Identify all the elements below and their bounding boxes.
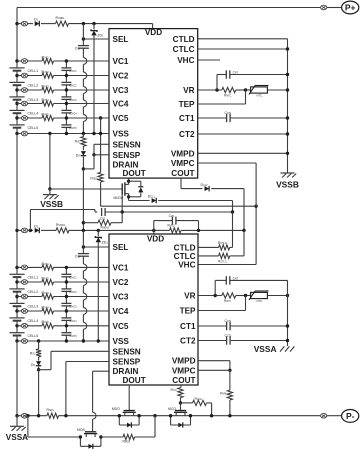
node supply-cap junction [82,22,85,25]
wire DOUT to gate (lower) [128,385,130,411]
svg-text:SENSN: SENSN [113,140,141,149]
resistor RMOS [123,434,135,439]
wire supply to SEL [82,24,84,39]
svg-text:RVC3: RVC3 [42,291,50,295]
wire subrow right [101,436,123,438]
battery CELL2 (lower stack) [9,288,24,290]
wire cap to VSS with hops (top) [82,48,84,57]
wire DOUT output row (top) [129,200,150,202]
svg-text:RCTLD: RCTLD [218,241,227,245]
wire SENSN link (lower) [39,369,51,371]
node RC filter right [197,229,200,232]
svg-text:RCO: RCO [171,388,177,392]
node battery tap [15,132,18,135]
thermistor NTC (lower) [251,292,268,298]
resistor RVDD1 [56,21,69,26]
wire VDD pin tick (top IC) [152,24,154,29]
svg-text:RVC4: RVC4 [42,98,50,102]
wire left rail mid segment [16,134,18,268]
wire VDD supply row (top) [17,23,33,25]
connector pad cell tap [21,116,27,121]
node lower supply junction [15,229,18,232]
connector pad cell tap [21,73,27,78]
capacitor CSEL (lower) [82,247,84,254]
battery CELL1 (upper stack) [9,67,24,69]
resistor RCTLC [219,253,230,258]
svg-text:VSS: VSS [113,130,130,139]
svg-text:RNTC: RNTC [224,299,231,303]
svg-text:VC3: VC3 [113,293,129,302]
resistor RSL1 (top, VSS to sense) [82,134,84,137]
battery CELL4 (upper stack) [9,109,24,111]
wire cell tap row 4 (top) [17,103,42,105]
wire to P- [327,415,342,417]
node supply-zener junction [92,22,95,25]
ground VSSB (right rail) [281,172,295,174]
node zener at VSS lower [97,339,100,342]
svg-text:VC1: VC1 [113,263,129,272]
svg-text:CELL3: CELL3 [28,305,39,309]
wire CTLD row (top) [198,38,288,40]
resistor RVDD3 (RC parallel) [170,228,182,233]
thermistor NTC (top) [251,87,268,93]
connector pad cell tap lower [21,265,27,270]
wire gate node to gate [180,403,182,411]
transistor MUDO (top DOUT FET) [128,178,130,184]
wire VSSB drop from VSS row [48,132,51,135]
wire cell tap row 5 (top) [17,117,42,119]
svg-text:RVDD1: RVDD1 [56,223,66,227]
svg-text:DS: DS [31,363,35,367]
wire SENSP (top) [94,154,109,156]
capacitor CVC2 (lower) [65,282,67,289]
svg-text:RSEN: RSEN [90,177,98,181]
node battery tap [15,74,18,77]
svg-text:VC4: VC4 [113,100,129,109]
connector pad cell tap lower [21,294,27,299]
node between FETs [153,414,156,417]
svg-text:DRAIN: DRAIN [113,367,139,376]
svg-text:VHC: VHC [178,261,195,270]
svg-text:VHC: VHC [177,56,194,65]
svg-text:RCTLC: RCTLC [218,260,227,264]
node SENSP bottom [64,414,67,417]
ground VSSB (left) [49,189,51,195]
node supply bypass junction [29,229,32,232]
svg-text:CS2: CS2 [100,216,106,220]
wire CT1 row (top) [198,117,227,119]
svg-text:CVC4: CVC4 [69,112,77,116]
battery CELL5 (lower stack) [9,332,24,334]
connector pad cell tap [21,59,27,64]
wire sense R row (mid) [82,221,85,224]
svg-text:CVD: CVD [169,214,175,218]
zener ZD2 (lower) [97,230,99,236]
svg-text:RVC1: RVC1 [42,262,50,266]
svg-text:VC5: VC5 [113,322,129,331]
svg-text:DOUT: DOUT [123,169,146,178]
capacitor CNT2 branch [214,280,216,295]
capacitor C mid [101,208,103,216]
resistor RSNS (sense) [47,413,59,418]
node supply row right end [242,229,245,232]
wire P- row [17,415,47,417]
svg-text:SEL: SEL [113,243,129,252]
svg-text:RVC2: RVC2 [42,70,50,74]
node RSNS left [37,414,40,417]
svg-text:VMPC: VMPC [171,159,195,168]
wire VMPD row (top) [198,152,288,154]
svg-text:CCT2: CCT2 [225,334,232,338]
wire cell tap row 6 (lower) [17,340,109,342]
svg-text:DCL1: DCL1 [148,195,156,199]
node battery tap lower [15,324,18,327]
connector pad P- line [321,413,327,418]
node subrow drop [26,414,29,417]
svg-text:VSS: VSS [113,337,130,346]
wire VMPC row (lower) [198,369,230,371]
wire left rail bottom segment [16,341,18,416]
svg-text:D1: D1 [34,18,39,22]
svg-text:NTC: NTC [257,299,263,303]
node hop-wire at VSS [82,132,85,135]
svg-text:CVC5: CVC5 [69,126,77,130]
op-amp U2 battery monitor IC (lower) box [109,234,198,385]
wire COUT output row (top) [181,188,202,190]
node supply-cap junction (lower) [82,229,85,232]
wire SENSP down-left to sense junction [93,155,95,169]
svg-text:SENSP: SENSP [113,358,141,367]
resistor RVC2 (lower) [42,279,54,284]
capacitor CNT1 branch [216,75,218,91]
svg-text:CNT: CNT [233,276,239,280]
battery CELL4 (lower stack) [9,317,24,319]
capacitor CVC1 (top) [65,61,67,68]
wire P+ rail top [17,7,320,9]
node zener at VSS [92,132,95,135]
svg-text:RVC4: RVC4 [42,305,50,309]
node VMPC-VHC junction [254,205,257,208]
svg-text:CT1: CT1 [180,322,196,331]
node SEL junction lower [82,245,85,248]
svg-text:VC2: VC2 [113,72,129,81]
svg-text:CELL2: CELL2 [28,84,39,88]
wire right rail (lower) [287,280,289,346]
svg-text:VR: VR [183,86,194,95]
svg-text:CCT1: CCT1 [225,319,232,323]
wire sense junction down to mid rows [82,169,84,231]
wire TEP connection (top) [198,103,246,105]
svg-text:RVC5: RVC5 [42,320,50,324]
node sense junction (top) [82,167,85,170]
svg-text:RVC5: RVC5 [42,112,50,116]
svg-text:RVC1: RVC1 [42,55,50,59]
node SEL junction [82,37,85,40]
wire cell tap row 3 (top) [17,89,42,91]
capacitor CVC3 (top) [65,90,67,97]
svg-text:TEP: TEP [179,100,195,109]
wire subrow up to main row [154,416,156,437]
wire cell tap row 2 (top) [17,75,42,77]
svg-text:RNTC: RNTC [224,93,231,97]
svg-text:VC5: VC5 [113,114,129,123]
resistor RCO1 [178,388,183,398]
svg-text:RVC2: RVC2 [42,276,50,280]
resistor RVC4 (lower) [42,308,54,313]
wire cell tap row 4 (lower) [17,310,42,312]
node cap chain bottom lower [65,339,68,342]
svg-text:VDD: VDD [145,28,162,37]
wire supply bypass up-over [29,210,31,231]
svg-text:VSSB: VSSB [40,199,63,209]
svg-text:NTC: NTC [257,94,263,98]
svg-text:RVM: RVM [220,392,226,396]
wire VC5 sense chain (top) [99,116,102,119]
wire cell tap row 6 (top) [17,133,109,135]
svg-text:CT2: CT2 [179,130,195,139]
node cap chain bottom [65,132,68,135]
diode DCL2 [205,186,210,191]
wire supply to SEL lower [82,230,84,247]
transistor MCO [175,410,186,412]
wire junction to VHC (lower IC) [255,206,257,264]
node SENSN-SENSP (top) [92,153,95,156]
svg-text:VDD: VDD [147,235,164,244]
svg-text:CNT: CNT [233,70,239,74]
resistor RCTLD [219,245,230,250]
svg-text:CELL1: CELL1 [28,276,39,280]
node battery tap [15,116,18,119]
node hop-wire at VSS lower [82,339,85,342]
connector pad cell tap [21,101,27,106]
svg-text:CS1: CS1 [75,254,81,258]
svg-text:CS1: CS1 [75,46,81,50]
resistor RVC5 (top) [42,115,54,120]
resistor RVC1 (lower) [42,265,54,270]
diode DS1 (top) [81,151,86,156]
capacitor CVC3 (lower) [65,297,67,304]
svg-text:VC2: VC2 [113,278,129,287]
svg-text:CELL3: CELL3 [28,98,39,102]
svg-text:CT1: CT1 [179,114,195,123]
wire cap to VSS with hops (lower) [82,256,84,264]
wire VSSB to gate row [50,188,122,190]
node sense junction lower [37,368,40,371]
ground VSSA (right rail) [280,346,284,351]
resistor RVC5 (lower) [42,323,54,328]
wire COUT row corner down [243,189,245,231]
wire CT2 row (top) [198,133,288,135]
svg-text:CELL1: CELL1 [28,69,39,73]
wire left rail top segment [16,8,18,62]
resistor RVC2 (top) [42,73,54,78]
wire CT2 row (lower) [198,340,227,342]
zener ZD1 (top) [93,24,95,30]
transistor MOS [85,431,96,433]
node DOUT-CTLD junction [231,210,234,213]
node battery tap lower [15,309,18,312]
wire COUT drop (top) [180,178,182,189]
svg-text:CELL2: CELL2 [28,290,39,294]
connector pad P- row left [21,413,27,418]
terminal P+ [342,1,359,14]
wire CT1 row (lower) [198,325,227,327]
svg-text:CVC4: CVC4 [69,319,77,323]
wire CTLC row (top) [198,48,288,50]
diode D2 [35,228,40,233]
svg-text:CVC3: CVC3 [69,305,77,309]
svg-text:CT2: CT2 [180,337,196,346]
svg-text:ZD1: ZD1 [97,34,104,38]
svg-text:P-: P- [346,411,355,421]
svg-text:CTLD: CTLD [173,35,195,44]
svg-text:DS: DS [76,153,80,157]
node VMPD-VMPC junction [228,369,231,372]
capacitor CVC5 (top) [65,118,67,125]
svg-text:DOUT: DOUT [123,376,146,385]
node P- row left [15,414,18,417]
svg-text:VC3: VC3 [113,86,129,95]
connector pad cell tap [21,131,27,136]
capacitor CSEL (top) [82,39,84,46]
wire gate node down [121,195,123,212]
node gate-cap junction [121,210,124,213]
wire cell tap row 3 (lower) [17,296,42,298]
svg-text:COUT: COUT [171,169,194,178]
svg-text:VC4: VC4 [113,307,129,316]
svg-text:VSSA: VSSA [6,433,28,442]
svg-text:TEP: TEP [180,307,196,316]
connector pad cell tap lower [21,324,27,329]
battery CELL3 (upper stack) [9,96,24,98]
wire cell tap row 1 (top) [17,60,42,62]
resistor RCO2 [181,402,193,404]
ground VSSA (left) [16,416,18,427]
resistor RVM [229,370,231,390]
node VSSB [48,187,51,190]
wire mid cap row [105,211,232,213]
node RC filter left [152,229,155,232]
node gate node MCO [179,401,182,404]
svg-text:VMPD: VMPD [171,149,195,158]
node supply-zener junction (lower) [97,229,100,232]
resistor RSEN1 (top) [98,172,103,182]
capacitor CCT2 (lower) [226,336,228,344]
resistor RNTC2 [222,293,236,298]
svg-text:MCO: MCO [168,407,176,411]
node battery tap lower [15,280,18,283]
wire DRAIN (lower) [93,370,109,372]
node battery tap lower [15,295,18,298]
node battery tap lower [15,339,18,342]
diode DS2 (lower) [36,361,41,366]
svg-text:SEL: SEL [113,35,129,44]
wire SEL row (lower) [83,246,109,248]
wire COUT drop (lower) [180,385,182,388]
svg-text:CVC1: CVC1 [69,275,77,279]
wire CTLD row (lower) [198,246,219,248]
wire VR row (top) [198,89,222,91]
diode DCL1 [152,198,157,203]
svg-text:D1: D1 [34,224,39,228]
resistor RSEN2 (mid) [98,220,111,225]
svg-text:MDO: MDO [112,407,120,411]
svg-text:RCO2: RCO2 [195,397,203,401]
op-amp U1 battery monitor IC (top) box [109,29,198,179]
wire VMPD row (lower) [198,360,230,362]
capacitor CVC5 (lower) [65,326,67,333]
capacitor CVC4 (top) [65,104,67,111]
diode D1 [35,21,40,26]
resistor RVC4 (top) [42,101,54,106]
svg-text:VSSB: VSSB [276,180,299,190]
terminal P- [342,410,359,423]
wire RVM to P- row [229,400,231,416]
wire mid row A (supply bypass) [30,209,95,211]
svg-text:CVC1: CVC1 [69,69,77,73]
svg-text:CVC2: CVC2 [69,84,77,88]
resistor RVC3 (lower) [42,294,54,299]
connector pad cell tap [21,88,27,93]
capacitor CCT1 (lower) [226,322,228,330]
svg-text:MOS: MOS [77,428,85,432]
battery CELL3 (lower stack) [9,302,24,304]
node battery tap [15,88,18,91]
svg-text:VMPC: VMPC [172,366,196,375]
node battery tap [15,59,18,62]
svg-text:SENSN: SENSN [113,347,141,356]
svg-text:CELL4: CELL4 [28,319,39,323]
wire SENSP (lower) [66,361,109,363]
svg-text:RSNS: RSNS [47,408,55,412]
node battery tap lower [15,266,18,269]
wire CTLC up to COUT net [243,230,245,256]
svg-text:VC1: VC1 [113,57,129,66]
resistor RVC1 (top) [42,58,54,63]
svg-text:RVD2: RVD2 [168,224,176,228]
wire VHC stub (top) [198,59,220,61]
wire VR row (lower) [198,295,222,297]
svg-text:CVC3: CVC3 [69,98,77,102]
wire VDD supply row (lower) [17,229,33,231]
resistor RVC3 (top) [42,87,54,92]
resistor RSL2 (lower VSS to sense) [37,339,40,342]
wire subrow [27,416,29,437]
battery CELL5 (upper stack) [9,124,24,126]
capacitor CVC2 (top) [65,76,67,83]
svg-text:CCT1: CCT1 [225,111,232,115]
svg-text:CELL5: CELL5 [28,126,39,130]
resistor RNTC1 [222,87,236,92]
svg-text:RMOS: RMOS [123,440,131,444]
wire TEP connection (lower) [198,310,246,312]
wire cell tap row 1 (lower) [17,266,42,268]
connector pad cell tap lower [21,339,27,344]
capacitor CCT1 (top) [226,114,228,122]
connector pad cell tap lower [21,309,27,314]
wire SENSN (top) [94,143,109,145]
svg-text:CELL5: CELL5 [28,334,39,338]
svg-text:COUT: COUT [172,376,195,385]
capacitor CVC1 (lower) [65,267,67,274]
wire VDD pin tick (lower IC) [153,230,155,234]
svg-text:VMPD: VMPD [172,357,196,366]
wire right rail (top) [287,39,289,173]
battery CELL1 (lower stack) [9,273,24,275]
connector pad supply lower [21,228,27,233]
wire SEL row (top) [83,38,109,40]
svg-text:RSL: RSL [75,139,81,143]
